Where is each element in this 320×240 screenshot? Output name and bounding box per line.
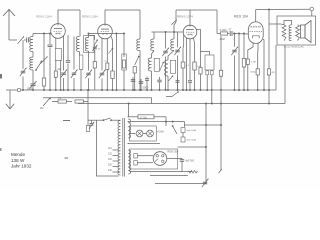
resistor R10 0,2M xyxy=(220,32,227,35)
label speaker xyxy=(284,46,304,49)
svg-text:4,6M: 4,6M xyxy=(220,39,225,41)
label tube V4 RES 164 xyxy=(234,15,248,19)
wire x239 down xyxy=(238,34,240,91)
resistor R13 1k xyxy=(256,69,259,75)
wire x217 to R10 xyxy=(217,33,220,35)
transformer secondary heater xyxy=(128,119,130,138)
wire L10 top xyxy=(284,21,292,25)
wire feed upper2 xyxy=(154,116,166,118)
trimmer C20 xyxy=(202,179,209,188)
wire x264 down xyxy=(263,40,265,91)
junction bus 13 xyxy=(112,89,114,91)
screen can under V1 xyxy=(55,49,61,61)
wire x88 to switch xyxy=(88,119,103,121)
wire V2 leg a xyxy=(101,39,103,71)
wire can leg a xyxy=(55,60,57,71)
node x221 a xyxy=(220,89,222,91)
wire cap down xyxy=(181,162,183,172)
node feed a xyxy=(165,121,167,123)
arrows mains feed xyxy=(128,116,134,122)
node bus3 d xyxy=(211,103,213,105)
junction bus 34 xyxy=(238,89,240,91)
node grid c xyxy=(243,33,245,35)
wire x166 drop xyxy=(165,117,167,126)
screen box around L4 xyxy=(84,36,95,53)
switch S7 xyxy=(169,75,174,81)
label RGN354 xyxy=(168,150,179,154)
junction bus 9 xyxy=(80,89,82,91)
junction bus 36 xyxy=(247,89,249,91)
wire x44 upper xyxy=(43,34,45,58)
wire C4 to bus xyxy=(88,78,90,90)
wire L3 to can xyxy=(79,52,81,56)
wire V1 topcap xyxy=(58,10,80,24)
wire x174 anode xyxy=(174,10,176,32)
label 4uF xyxy=(186,161,195,163)
wire V1 leg a xyxy=(55,38,57,49)
resistor R2 xyxy=(42,78,45,86)
wire x201 lower xyxy=(200,74,202,90)
trimmer C5 xyxy=(60,69,67,78)
wire x207 bottom xyxy=(206,75,208,90)
junction bus 22 xyxy=(159,89,161,91)
wire L5 down xyxy=(139,51,141,91)
junction bus 8 xyxy=(73,89,75,91)
wire x212 bottom xyxy=(211,75,213,104)
arrow var L8 xyxy=(171,20,177,25)
wire x183 upper xyxy=(182,32,185,62)
wire arrow to C1 xyxy=(24,39,26,41)
transformer secondary HT xyxy=(128,150,130,174)
wire C5 to bus xyxy=(63,78,65,90)
speaker box xyxy=(277,16,316,45)
wire R10 to C17 xyxy=(228,33,230,35)
wire C21 lower xyxy=(146,80,148,90)
resistor R9a xyxy=(206,71,209,75)
wire V1 anode down x80 xyxy=(79,10,81,37)
wire feed lower xyxy=(133,121,185,123)
coil L5 xyxy=(137,39,140,51)
potentiometer arrow R1 xyxy=(41,57,48,64)
wire C11 lower xyxy=(159,82,161,90)
wire hv line xyxy=(130,171,192,173)
resistor R8 xyxy=(193,62,196,70)
wire x141 stub xyxy=(140,79,142,90)
junction bus 31 xyxy=(206,89,208,91)
svg-text:(1kΩ): (1kΩ) xyxy=(251,72,257,74)
wire x166 lower xyxy=(165,57,167,91)
caption Mende xyxy=(11,152,25,157)
scan dash a xyxy=(63,120,70,122)
wire C1 to L1 xyxy=(29,39,31,41)
wire x285 down xyxy=(284,45,286,104)
coil L7 reaction xyxy=(148,58,151,71)
svg-text:RENS 1374: RENS 1374 xyxy=(177,15,193,19)
lamp LP2 xyxy=(147,130,154,137)
wire V3 leg c xyxy=(194,38,195,62)
wire L1 top to grid bus xyxy=(32,34,34,37)
wire L4 top to V2 grid xyxy=(89,34,98,38)
coil L2 secondary xyxy=(30,57,33,70)
wire x96 drop lower xyxy=(97,120,119,176)
wire L2 to padder xyxy=(32,70,34,84)
wire y51 link xyxy=(201,52,210,56)
wire R23 to bus xyxy=(94,68,96,90)
wire lamps link xyxy=(143,133,147,135)
screen box L7 xyxy=(154,58,159,71)
wire feed upper xyxy=(133,116,139,118)
switch S5 mains xyxy=(103,118,112,121)
junction bus 35 xyxy=(243,89,245,91)
wire S8 stub xyxy=(166,96,172,98)
label 0,2M xyxy=(220,30,227,32)
coil L9 xyxy=(165,60,168,76)
wire x269 down lower xyxy=(268,75,270,104)
wire x234 lower xyxy=(234,56,236,91)
wire R15 stub xyxy=(84,101,89,103)
junction bus 6 xyxy=(63,89,65,91)
svg-text:1,2M: 1,2M xyxy=(251,62,256,64)
junction bus 21 xyxy=(151,89,153,91)
label tap 220 xyxy=(108,165,113,167)
wire terminal stem xyxy=(311,11,313,16)
label tap 125 xyxy=(108,154,113,156)
junction bus 18 xyxy=(139,89,141,91)
junction bus 10 xyxy=(88,89,90,91)
wire C2 to ground bus xyxy=(22,77,24,91)
resistor R11 4,6M xyxy=(242,59,245,68)
junction bus 28 xyxy=(189,89,191,91)
svg-text:17 Ω/b: 17 Ω/b xyxy=(140,116,148,119)
coil L11 output primary xyxy=(289,25,292,41)
resistor R15 xyxy=(75,100,84,103)
label 2M xyxy=(58,68,61,71)
label R14 xyxy=(58,97,62,100)
arrow lamp feed xyxy=(130,133,136,134)
svg-text:RENS 1264: RENS 1264 xyxy=(36,15,52,19)
wire x184 drop xyxy=(184,122,186,127)
terminal pickup xyxy=(310,7,314,11)
capacitor C21 xyxy=(145,77,149,81)
capacitor C10 5000 xyxy=(139,82,144,84)
svg-text:4Ω: 4Ω xyxy=(272,72,275,74)
tube V1 RENS1264 xyxy=(51,24,66,39)
wire x140 anode xyxy=(139,10,141,39)
wire link y32 xyxy=(152,31,184,33)
wire x128 drop xyxy=(128,104,130,118)
wire x44 mid xyxy=(43,57,45,78)
wire V4 leg a xyxy=(248,43,253,59)
junction bus 3 xyxy=(49,89,51,91)
wire bottom xyxy=(155,183,206,185)
capacitor C6 xyxy=(66,61,71,63)
wire box to bus xyxy=(123,70,125,90)
capacitor C11 xyxy=(157,80,162,82)
wire V3 top run xyxy=(176,9,217,11)
caption 138W xyxy=(11,158,25,163)
wire x183 lower xyxy=(182,68,184,90)
label R4 xyxy=(105,61,109,63)
node grid bus c xyxy=(88,33,90,35)
screen box L9 xyxy=(170,60,175,73)
wire junction to V1 xyxy=(50,33,52,34)
node bus3 a xyxy=(268,103,270,105)
junction bus 37 xyxy=(257,89,259,91)
wire L3 can to bus xyxy=(80,69,82,90)
wire x217 down xyxy=(216,10,218,34)
junction bus 7 xyxy=(67,89,69,91)
tap 240 xyxy=(113,171,119,173)
svg-text:2M: 2M xyxy=(40,107,43,110)
node x269 top xyxy=(268,9,270,11)
wire x166 upper xyxy=(165,32,167,49)
resistor R19 zigzag xyxy=(189,171,198,174)
label 1k xyxy=(251,72,257,74)
wire L4 bottom xyxy=(88,51,90,71)
wire V2 topcap xyxy=(105,10,140,24)
coil L10 field xyxy=(282,25,286,41)
wire R13 to bus xyxy=(257,75,259,90)
label F1 xyxy=(187,129,197,132)
coil L4 secondary xyxy=(85,38,88,52)
tap 150 xyxy=(113,160,119,162)
node y32 a xyxy=(165,31,167,33)
label 5000b xyxy=(229,29,232,32)
lamp LP1 xyxy=(136,130,143,137)
wire V4 anode to x264 xyxy=(263,39,264,41)
node grid a xyxy=(234,33,236,35)
coil L12 output secondary xyxy=(296,25,300,41)
resistor R9b xyxy=(210,71,213,75)
trimmer C4 xyxy=(85,70,92,79)
label S4 xyxy=(40,107,43,110)
wire antenna to coupling cap xyxy=(9,39,17,41)
node bus3 b xyxy=(205,103,207,105)
wire x133 stub xyxy=(132,77,134,90)
label 1500 xyxy=(27,87,33,91)
wire x221 drop upper xyxy=(220,36,222,70)
wire link y147 xyxy=(178,146,207,148)
junction bus 39 xyxy=(268,89,270,91)
label C4b xyxy=(98,49,101,51)
variable capacitor C18 xyxy=(231,47,238,56)
dial lamp box xyxy=(129,126,156,141)
wire R3 to bus xyxy=(55,77,57,90)
wire V4 top xyxy=(255,10,257,22)
wire box entry xyxy=(269,23,284,26)
wire return xyxy=(133,143,161,145)
speaker cone xyxy=(300,21,311,43)
wire R12 to bus xyxy=(247,65,249,91)
scan mark left xyxy=(0,74,2,79)
svg-text:+0,5A+: +0,5A+ xyxy=(157,130,165,133)
coil L1 antenna primary xyxy=(30,37,33,52)
wire link y125 xyxy=(185,124,222,126)
wire x178 lower xyxy=(177,56,179,91)
wire v5 to cap xyxy=(167,158,182,161)
wire C16 down xyxy=(189,83,191,90)
switch S4 mains side xyxy=(43,98,51,106)
wire x201 xyxy=(196,30,201,68)
tap 220 xyxy=(113,166,119,168)
junction bus 38 xyxy=(263,89,265,91)
wire R14 stub2 xyxy=(67,101,73,103)
wire grid bus ext xyxy=(117,33,125,35)
wire L1-L2 xyxy=(32,52,34,58)
junction bus 12 xyxy=(106,89,108,91)
resistor R14 xyxy=(58,100,67,103)
capacitor C1 antenna coupling xyxy=(27,38,29,43)
tube V2 RENS1264 xyxy=(98,24,113,39)
node x221 c xyxy=(220,124,222,126)
capacitor C13 xyxy=(176,77,180,82)
coil L3 HF choke primary xyxy=(76,37,79,52)
wire x44 lower xyxy=(43,86,45,90)
junction bus 1 xyxy=(32,89,34,91)
wire to ground xyxy=(9,90,11,104)
wire x154 top xyxy=(153,32,155,39)
capacitor C16 xyxy=(188,81,192,83)
junction bus 17 xyxy=(134,89,136,91)
trimmer capacitor 1500 xyxy=(30,81,37,89)
wire C13 lower xyxy=(177,82,179,90)
wire V2 grid bus xyxy=(98,33,117,35)
wire can leg b xyxy=(60,60,62,90)
svg-text:138 W: 138 W xyxy=(11,158,25,163)
wire hv line2 xyxy=(150,175,188,177)
ground bus xyxy=(6,89,276,91)
wire V3 topcap xyxy=(189,10,191,25)
junction bus 29 xyxy=(194,89,196,91)
junction bus 4 xyxy=(55,89,57,91)
node x206 a xyxy=(205,124,207,126)
junction bus 24 xyxy=(167,89,169,91)
switch S6 xyxy=(172,125,177,134)
junction bus 16 xyxy=(132,89,134,91)
resistor R5 xyxy=(111,71,114,79)
junction bus 5 xyxy=(60,89,62,91)
node grid b xyxy=(238,33,240,35)
junction bus 0 xyxy=(22,89,24,91)
wire R22 to bus xyxy=(134,73,136,90)
svg-text:RGN 354: RGN 354 xyxy=(168,150,179,154)
node x88 xyxy=(87,89,89,91)
resistor R25 xyxy=(199,68,202,75)
switch S3b xyxy=(160,62,164,71)
wire x50 upper xyxy=(49,34,51,45)
wire S9 to C4b xyxy=(94,45,96,47)
variable coupling arrow xyxy=(18,36,25,43)
wire top run to terminal xyxy=(256,8,310,10)
resistor R22 xyxy=(133,67,136,74)
svg-text:für aut. Wicklung Rü: für aut. Wicklung Rü xyxy=(284,46,304,49)
wire R14 stubs xyxy=(52,101,58,103)
scan mark left2 xyxy=(0,148,2,151)
label 17ohm xyxy=(140,116,148,119)
wire L6 down xyxy=(152,51,155,59)
node grid bus b xyxy=(49,33,51,35)
wire fuse link xyxy=(182,133,184,138)
wire L4box to x94 xyxy=(90,36,95,41)
resistor R12 1,2M xyxy=(246,59,249,65)
switch S9 xyxy=(95,39,98,44)
tube V5 RGN354 xyxy=(153,152,167,166)
label tap 150 xyxy=(108,159,113,161)
wire rect wiring a xyxy=(137,155,153,157)
svg-text:4μF 500: 4μF 500 xyxy=(186,161,195,163)
svg-text:RENS 1264: RENS 1264 xyxy=(82,15,98,19)
trimmer C4b xyxy=(92,45,97,51)
coil L6 xyxy=(151,39,154,51)
svg-text:Sich 0,5A: Sich 0,5A xyxy=(187,139,197,142)
wire R4 to bus xyxy=(106,70,108,91)
wire L8 down xyxy=(168,51,174,61)
resistor R18 xyxy=(134,161,138,166)
screen box R9 xyxy=(205,55,214,70)
junction bus 20 xyxy=(146,89,148,91)
switch S2b xyxy=(109,48,114,54)
wire padder to bus xyxy=(32,86,34,90)
wire R5 to bus xyxy=(112,79,114,91)
supply bus 3 xyxy=(78,103,285,105)
wire x124 top xyxy=(123,34,125,58)
wire x178 upper xyxy=(177,32,179,47)
wire V1 leg c xyxy=(67,35,69,60)
switch S2 xyxy=(135,56,140,65)
wire V4 leg b xyxy=(257,43,259,68)
trimmer C8 xyxy=(99,70,106,79)
label 1,2M xyxy=(251,62,256,64)
wire V1 grid bus xyxy=(33,33,51,35)
resistor R3 2M xyxy=(54,71,57,77)
node grid bus d xyxy=(115,33,117,35)
junction bus 14 xyxy=(115,89,117,91)
scan dash b xyxy=(65,157,69,159)
wire x269 down upper xyxy=(268,10,270,69)
wire L9 to bus xyxy=(167,76,169,90)
label 4,6M xyxy=(220,39,225,41)
wire C4b down xyxy=(94,50,96,62)
resistor R20 xyxy=(181,62,185,68)
resistor R17 xyxy=(134,154,138,159)
wire x276 down xyxy=(275,45,277,90)
junction bus 19 xyxy=(140,89,142,91)
ground xyxy=(6,104,14,109)
node feed b xyxy=(172,121,174,123)
tube V3 RENS1374 xyxy=(183,25,197,39)
wire V2 leg b xyxy=(106,39,108,63)
switch S1 wave band xyxy=(35,61,42,71)
wire V2 leg c xyxy=(111,37,113,72)
svg-text:Jahr 1932: Jahr 1932 xyxy=(11,163,32,168)
tap 125 xyxy=(113,155,119,157)
trimmer C23 xyxy=(89,120,94,128)
node bus3 c xyxy=(128,103,130,105)
label R21 xyxy=(272,72,275,74)
screen box R7 xyxy=(122,54,127,70)
wire L7 to bus xyxy=(151,71,153,90)
label lamp current xyxy=(157,130,165,133)
junction bus 23 xyxy=(165,89,167,91)
junction bus 15 xyxy=(123,89,125,91)
resistor R21 field xyxy=(267,69,270,75)
wire x206 drop xyxy=(205,104,207,184)
junction bus 26 xyxy=(182,89,184,91)
variable capacitor C14 xyxy=(174,47,181,56)
switch S8 xyxy=(172,91,179,96)
capacitor C3 xyxy=(48,45,53,47)
node x221 b xyxy=(220,103,222,105)
